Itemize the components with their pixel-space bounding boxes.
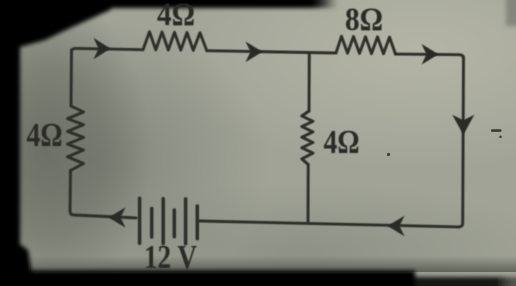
svg-text:8Ω: 8Ω (345, 2, 383, 38)
svg-text:4Ω: 4Ω (157, 0, 195, 33)
svg-text:4Ω: 4Ω (324, 124, 360, 161)
svg-text:4Ω: 4Ω (27, 117, 63, 154)
svg-text:12 V: 12 V (144, 239, 197, 276)
